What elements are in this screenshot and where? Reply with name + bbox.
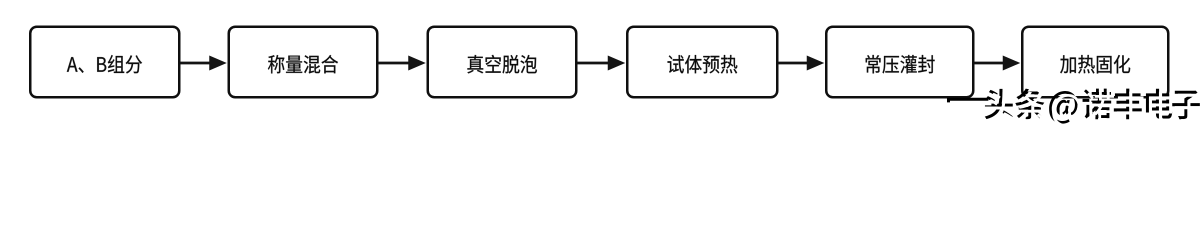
process box 2: 称量混合 — [229, 27, 378, 98]
arrow connector 2 — [378, 62, 410, 65]
arrow connector 1 — [180, 62, 211, 65]
process box 5: 常压灌封 — [826, 27, 973, 98]
process box 4: 试体预热 — [627, 27, 777, 98]
label text: 常压灌封 — [866, 55, 935, 73]
label text: A、B组分 — [67, 55, 142, 73]
label text: 真空脱泡 — [467, 55, 537, 74]
watermark text 头条@诺丰电子 (black layer) — [985, 89, 1200, 124]
label text: 称量混合 — [268, 55, 338, 74]
arrow connector 4 — [778, 62, 808, 65]
label text: 加热固化 — [1060, 55, 1130, 74]
arrow connector 3 — [577, 62, 609, 65]
label text: 试体预热 — [668, 55, 738, 74]
process box 1: A、B组分 — [30, 27, 179, 98]
arrow connector 5 — [974, 62, 1004, 65]
process box 6: 加热固化 — [1022, 27, 1168, 98]
process box 3: 真空脱泡 — [428, 27, 577, 98]
watermark: Toutiao logo dash (black layer) — [947, 98, 988, 103]
watermark text highlight (white layer, offset) — [988, 92, 1200, 127]
watermark logo dash highlight (white layer, offset) — [950, 101, 991, 106]
